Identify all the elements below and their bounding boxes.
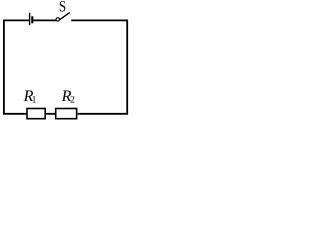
svg-text:S: S bbox=[59, 0, 66, 16]
